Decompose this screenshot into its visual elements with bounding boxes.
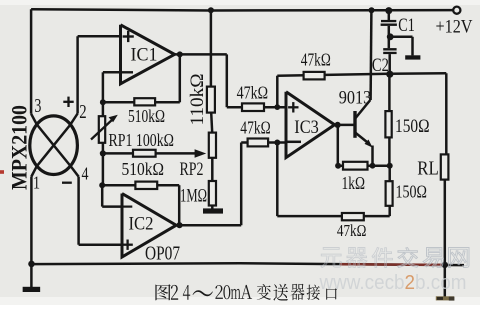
svg-text:RP2: RP2	[180, 160, 204, 180]
svg-text:C2: C2	[372, 55, 389, 76]
svg-text:RP1 100kΩ: RP1 100kΩ	[109, 130, 175, 150]
svg-text:47kΩ: 47kΩ	[337, 221, 367, 240]
svg-text:1kΩ: 1kΩ	[342, 173, 366, 193]
svg-text:150Ω: 150Ω	[395, 117, 430, 137]
svg-text:C1: C1	[398, 15, 415, 36]
svg-text:4: 4	[82, 164, 89, 184]
svg-text:OP07: OP07	[145, 244, 180, 265]
svg-text:1MΩ: 1MΩ	[180, 187, 207, 207]
svg-text:MPX2100: MPX2100	[7, 105, 32, 190]
svg-text:www.cecb2b.com: www.cecb2b.com	[319, 272, 467, 294]
svg-text:2: 2	[79, 101, 86, 123]
svg-text:1: 1	[33, 173, 40, 193]
svg-text:IC1: IC1	[131, 45, 158, 66]
svg-text:3: 3	[34, 95, 41, 117]
svg-text:510kΩ: 510kΩ	[128, 106, 165, 126]
svg-text:110kΩ: 110kΩ	[187, 74, 208, 126]
svg-text:RL: RL	[417, 158, 439, 180]
svg-text:510kΩ: 510kΩ	[122, 159, 165, 179]
svg-text:150Ω: 150Ω	[396, 182, 428, 202]
svg-text:47kΩ: 47kΩ	[237, 83, 269, 103]
svg-text:47kΩ: 47kΩ	[301, 50, 331, 70]
svg-text:IC2: IC2	[129, 215, 154, 235]
svg-text:IC3: IC3	[294, 118, 319, 138]
svg-text:9013: 9013	[339, 88, 372, 109]
svg-text:47kΩ: 47kΩ	[240, 117, 270, 137]
svg-text:+12V: +12V	[436, 18, 474, 38]
